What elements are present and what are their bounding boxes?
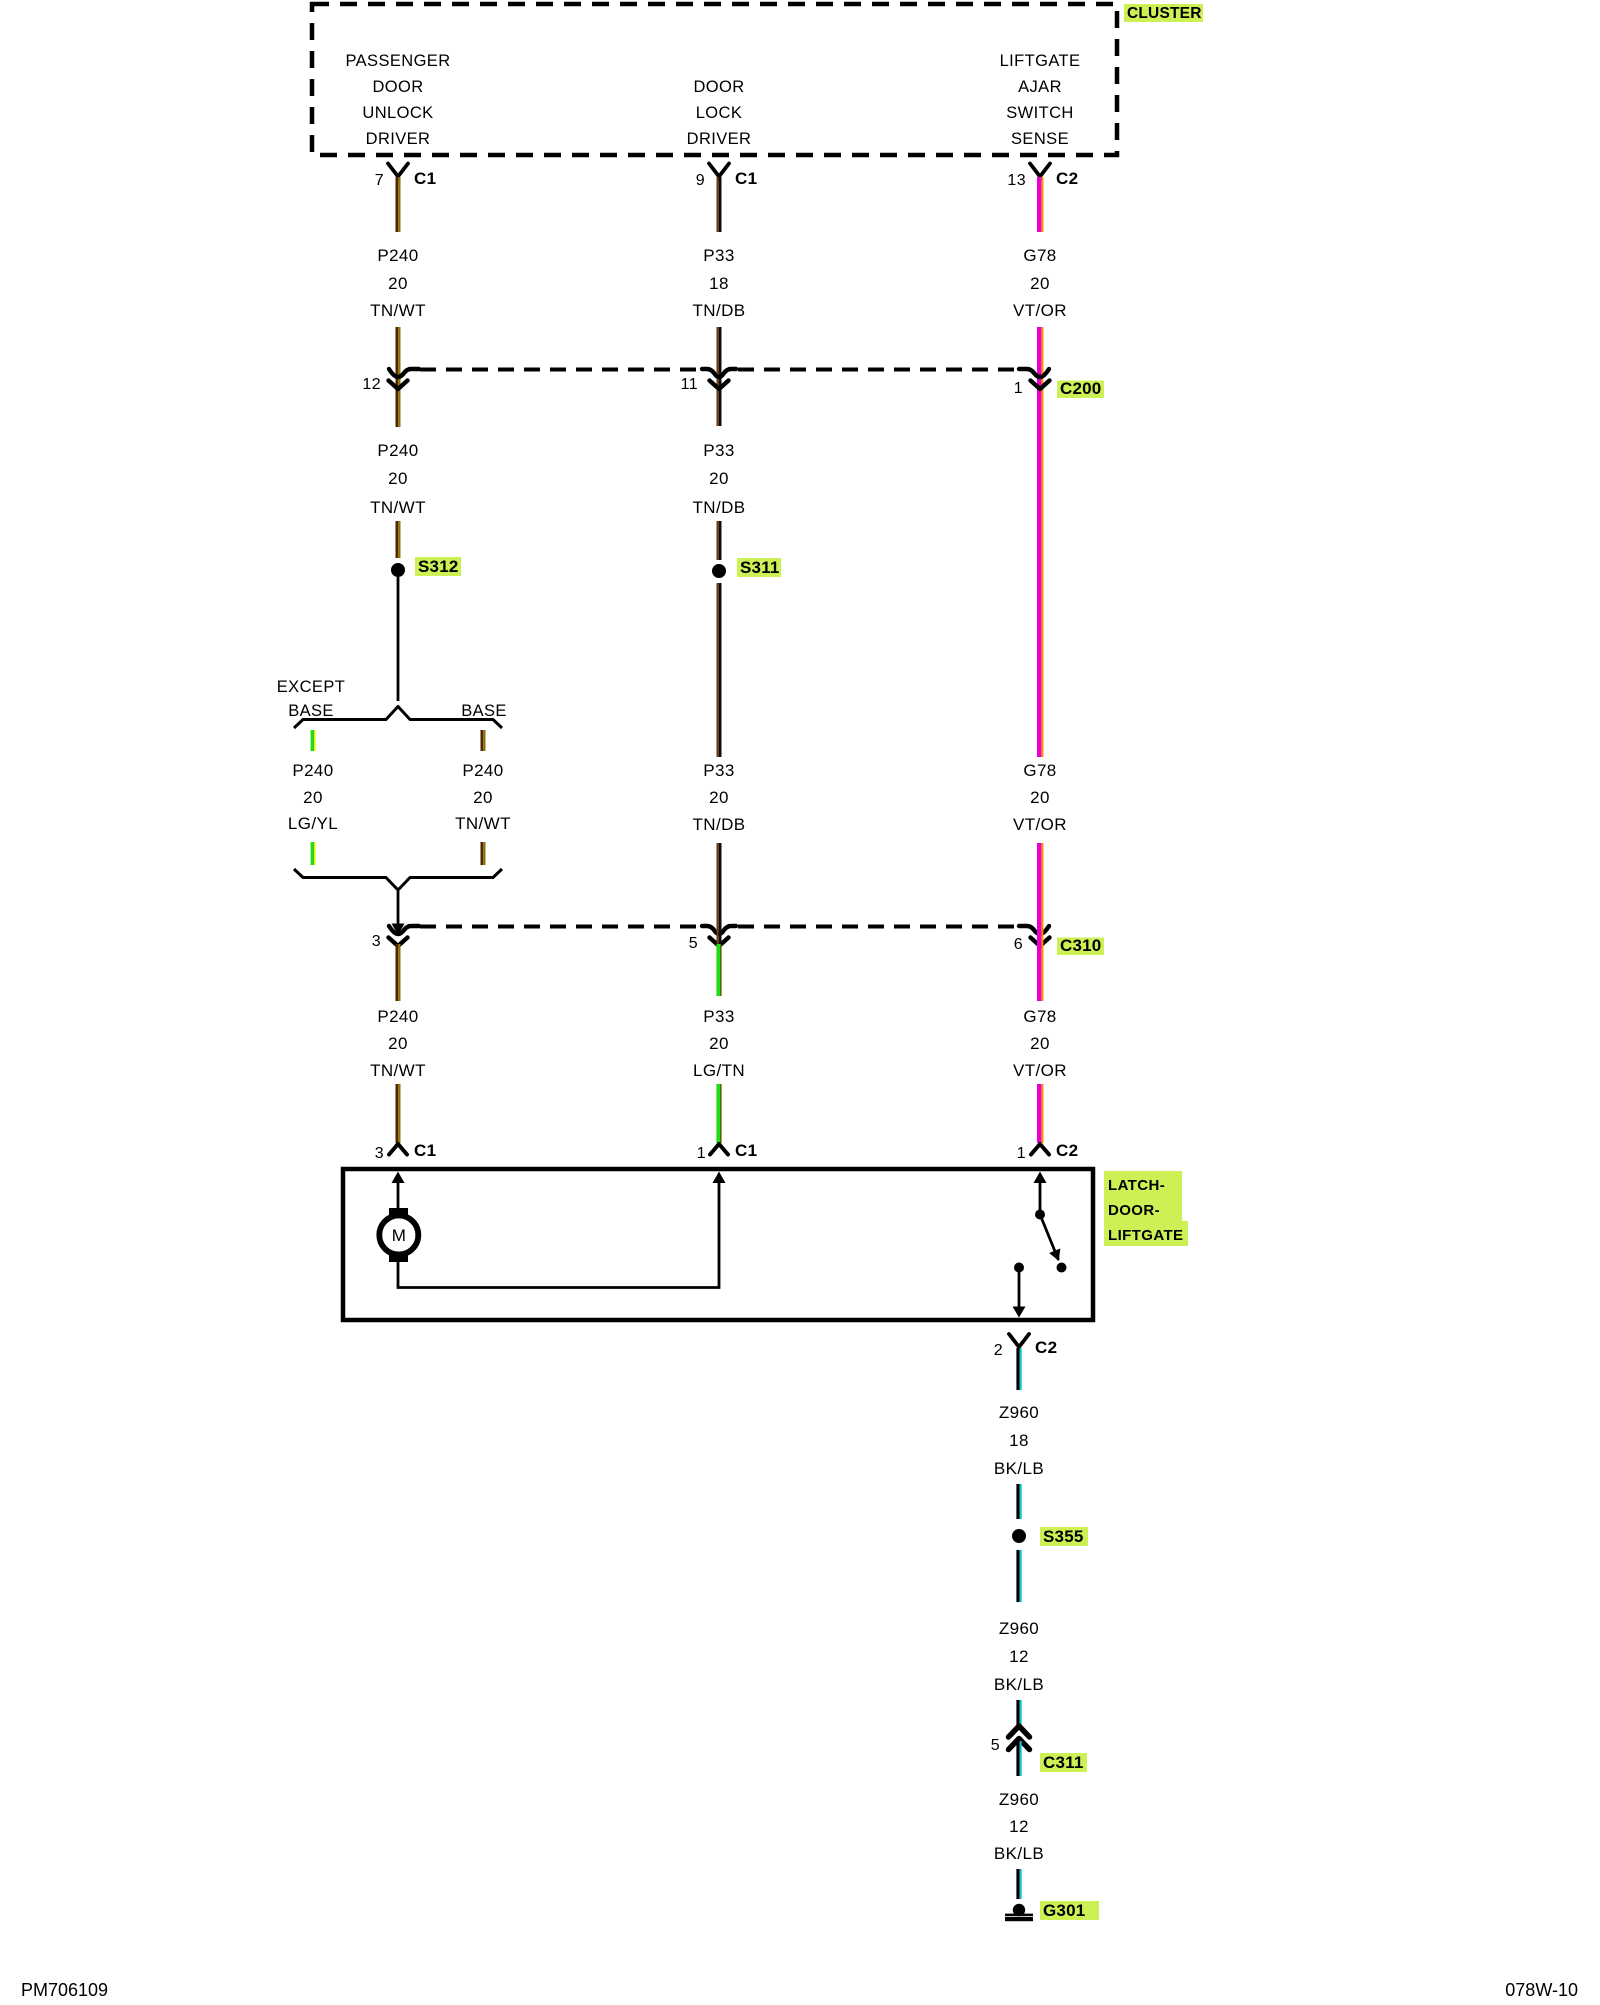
svg-text:C200: C200 — [1060, 379, 1101, 398]
svg-text:AJAR: AJAR — [1018, 78, 1062, 96]
branch label EXCEPT BASE — [277, 678, 345, 720]
svg-text:LOCK: LOCK — [696, 104, 743, 122]
wire LG/YL stub (lower) — [311, 842, 316, 865]
wire motor to pin 3 (arrow) — [392, 1172, 405, 1213]
svg-text:S355: S355 — [1043, 1527, 1084, 1546]
wire G78 20 VT/OR segment (pin 13 to label) — [1037, 177, 1043, 232]
wire label G78 20 VT/OR (second) — [1013, 761, 1067, 834]
svg-text:11: 11 — [681, 376, 698, 393]
svg-text:C1: C1 — [414, 1141, 437, 1160]
svg-text:BK/LB: BK/LB — [994, 1675, 1044, 1694]
svg-text:G78: G78 — [1023, 246, 1056, 265]
svg-text:12: 12 — [362, 376, 381, 393]
svg-text:TN/WT: TN/WT — [370, 498, 426, 517]
svg-text:20: 20 — [303, 788, 323, 807]
component box LATCH-DOOR-LIFTGATE — [343, 1169, 1093, 1320]
svg-text:P33: P33 — [703, 441, 734, 460]
connector pin 13 C2 (cluster, liftgate ajar switch sense) — [1030, 164, 1050, 181]
wire label P33 20 TN/DB — [693, 441, 746, 517]
svg-text:SWITCH: SWITCH — [1006, 104, 1073, 122]
svg-text:5: 5 — [689, 935, 698, 952]
svg-text:C1: C1 — [735, 1141, 758, 1160]
svg-text:7: 7 — [375, 172, 384, 189]
wire P240 20 LG/YL stub (upper) — [311, 730, 316, 751]
connector pin 7 C1 (cluster, passenger door unlock driver) — [388, 164, 408, 181]
svg-text:LG/YL: LG/YL — [288, 814, 338, 833]
svg-text:LIFTGATE: LIFTGATE — [1108, 1227, 1183, 1244]
svg-text:SENSE: SENSE — [1011, 130, 1069, 148]
wire TN/DB segment (S311 down to label) — [717, 583, 722, 757]
pin label LIFTGATE AJAR SWITCH SENSE — [1000, 52, 1081, 148]
svg-text:TN/DB: TN/DB — [693, 815, 746, 834]
switch liftgate ajar (common from pin 1 C2) — [1034, 1172, 1047, 1220]
wire Z960 18 BK/LB segment (pin 2 to label) — [1016, 1348, 1021, 1390]
svg-text:VT/OR: VT/OR — [1013, 301, 1067, 320]
connector label C311 — [1040, 1753, 1087, 1772]
dashed connector line C310 (left span) — [420, 925, 700, 929]
wire TN/WT stub (lower) — [481, 842, 486, 865]
wire P33 18 TN/DB segment (pin 9 to label) — [717, 177, 722, 232]
svg-text:2: 2 — [994, 1342, 1003, 1359]
svg-text:P240: P240 — [377, 1007, 418, 1026]
connector pin 9 C1 (cluster, door lock driver) — [709, 164, 729, 181]
svg-text:078W-10: 078W-10 — [1505, 1980, 1578, 2000]
svg-text:18: 18 — [709, 274, 729, 293]
connector C200 pin 11 symbol — [702, 369, 736, 389]
svg-text:C2: C2 — [1056, 169, 1079, 188]
wire TN/WT segment (C310 to label) — [396, 944, 401, 1001]
wire P240 20 TN/WT segment (pin 7 to label) — [396, 177, 401, 232]
svg-text:LG/TN: LG/TN — [693, 1061, 745, 1080]
svg-text:P240: P240 — [377, 246, 418, 265]
svg-text:3: 3 — [372, 933, 381, 950]
wire TN/DB segment (label through C200) — [717, 327, 722, 426]
svg-text:TN/WT: TN/WT — [370, 301, 426, 320]
brace branch merge bottom — [294, 869, 502, 890]
svg-text:TN/WT: TN/WT — [370, 1061, 426, 1080]
svg-text:C2: C2 — [1035, 1338, 1058, 1357]
splice S311 — [712, 558, 781, 578]
connector C200 pin 12 symbol — [389, 369, 420, 389]
wire label P240 20 TN/WT (third) — [370, 1007, 426, 1080]
svg-text:S312: S312 — [418, 557, 459, 576]
wire motor to pin 1 (via bottom) — [398, 1172, 726, 1288]
wire BK/LB segment (label to C311) — [1016, 1700, 1021, 1727]
svg-text:20: 20 — [709, 788, 729, 807]
svg-text:BASE: BASE — [461, 702, 507, 720]
svg-text:G78: G78 — [1023, 1007, 1056, 1026]
svg-text:LIFTGATE: LIFTGATE — [1000, 52, 1081, 70]
svg-text:DOOR-: DOOR- — [1108, 1202, 1160, 1219]
connector label C200 — [1057, 379, 1104, 398]
wire label P33 18 TN/DB — [693, 246, 746, 320]
wire label Z960 18 BK/LB — [994, 1403, 1044, 1478]
svg-text:1: 1 — [697, 1145, 706, 1162]
dashed connector line C310 (right span) — [738, 925, 1019, 929]
wire TN/DB segment (label to splice S311) — [717, 521, 722, 560]
wire LG/TN segment (label to latch pin 1) — [716, 1084, 721, 1143]
svg-text:Z960: Z960 — [999, 1403, 1039, 1422]
wire TN/DB segment (label to C310) — [717, 843, 722, 944]
svg-text:TN/DB: TN/DB — [693, 498, 746, 517]
wire label Z960 12 BK/LB (second) — [994, 1790, 1044, 1863]
wire label P33 20 LG/TN — [693, 1007, 745, 1080]
wire VT/OR segment (label to C200) — [1037, 327, 1043, 391]
svg-text:1: 1 — [1017, 1145, 1026, 1162]
wire VT/OR long segment (C200 to label) — [1037, 391, 1043, 757]
svg-text:VT/OR: VT/OR — [1013, 1061, 1067, 1080]
svg-text:20: 20 — [1030, 1034, 1050, 1053]
connector C310 pin 6 symbol — [1019, 926, 1050, 946]
switch contact to pin 2 (arrow down) — [1013, 1263, 1026, 1318]
svg-text:20: 20 — [1030, 788, 1050, 807]
svg-text:P240: P240 — [462, 761, 503, 780]
svg-text:20: 20 — [388, 274, 408, 293]
svg-text:EXCEPT: EXCEPT — [277, 678, 345, 696]
svg-text:VT/OR: VT/OR — [1013, 815, 1067, 834]
svg-text:P33: P33 — [703, 246, 734, 265]
svg-text:C1: C1 — [735, 169, 758, 188]
component box CLUSTER (dashed) — [312, 4, 1117, 155]
wire label P33 20 TN/DB (second) — [693, 761, 746, 834]
connector pin 1 C1 (latch) — [710, 1144, 728, 1155]
svg-text:BASE: BASE — [288, 702, 334, 720]
svg-text:DOOR: DOOR — [693, 78, 744, 96]
svg-text:TN/WT: TN/WT — [455, 814, 511, 833]
svg-text:6: 6 — [1014, 936, 1023, 953]
svg-text:G78: G78 — [1023, 761, 1056, 780]
pin label DOOR LOCK DRIVER — [687, 78, 752, 148]
wire VT/OR segment (label through C310) — [1037, 843, 1043, 1001]
wire TN/WT segment (label to splice S312) — [396, 521, 401, 558]
wire P240 20 TN/WT stub (upper) — [481, 730, 486, 751]
svg-text:C1: C1 — [414, 169, 437, 188]
svg-text:12: 12 — [1009, 1817, 1029, 1836]
wire label Z960 12 BK/LB — [994, 1619, 1044, 1694]
svg-text:20: 20 — [388, 469, 408, 488]
wire label G78 20 VT/OR (third) — [1013, 1007, 1067, 1080]
wire from brace merge to C310 — [397, 891, 400, 930]
svg-text:3: 3 — [375, 1145, 384, 1162]
svg-text:DRIVER: DRIVER — [366, 130, 431, 148]
pin label PASSENGER DOOR UNLOCK DRIVER — [345, 52, 450, 148]
switch blade with arrow — [1040, 1215, 1067, 1273]
svg-text:C310: C310 — [1060, 936, 1101, 955]
svg-text:P33: P33 — [703, 1007, 734, 1026]
connector C311 pin 5 symbol — [1009, 1726, 1030, 1750]
svg-text:20: 20 — [1030, 274, 1050, 293]
wire label P240 20 TN/WT (branch) — [455, 761, 511, 833]
svg-text:CLUSTER: CLUSTER — [1127, 5, 1202, 22]
svg-text:18: 18 — [1009, 1431, 1029, 1450]
wire BK/LB segment (S355 to label) — [1016, 1550, 1021, 1602]
svg-text:Z960: Z960 — [999, 1619, 1039, 1638]
svg-text:DOOR: DOOR — [372, 78, 423, 96]
dashed connector line C200 (left span) — [420, 368, 700, 372]
wire TN/WT segment (label through C200) — [396, 327, 401, 427]
wire label P240 20 TN/WT — [370, 246, 426, 320]
svg-text:20: 20 — [709, 1034, 729, 1053]
dashed connector line C200 (right span) — [738, 368, 1019, 372]
svg-text:5: 5 — [991, 1737, 1000, 1754]
svg-text:P240: P240 — [377, 441, 418, 460]
wire BK/LB segment (C311 arrow shaft) — [1016, 1741, 1021, 1776]
svg-text:13: 13 — [1007, 172, 1026, 189]
wire P33 20 LG/TN segment (C310 to label) — [716, 944, 721, 996]
label LATCH-DOOR-LIFTGATE — [1104, 1171, 1188, 1246]
svg-text:M: M — [392, 1226, 407, 1245]
svg-text:DRIVER: DRIVER — [687, 130, 752, 148]
svg-text:9: 9 — [696, 172, 705, 189]
svg-text:PM706109: PM706109 — [21, 1980, 108, 2000]
wire VT/OR segment (label to latch pin 1) — [1037, 1084, 1043, 1143]
motor M (door unlock) — [379, 1208, 418, 1262]
wire BK/LB segment (label to ground) — [1016, 1869, 1021, 1899]
wire label P240 20 TN/WT (second) — [370, 441, 426, 517]
svg-text:BK/LB: BK/LB — [994, 1459, 1044, 1478]
label CLUSTER — [1124, 4, 1203, 22]
svg-text:12: 12 — [1009, 1647, 1029, 1666]
wire from splice S312 to branch brace — [397, 577, 400, 701]
svg-text:BK/LB: BK/LB — [994, 1844, 1044, 1863]
connector label C310 — [1057, 936, 1104, 955]
svg-text:PASSENGER: PASSENGER — [345, 52, 450, 70]
svg-text:G301: G301 — [1043, 1901, 1085, 1920]
ground G301 — [1005, 1904, 1033, 1921]
connector pin 1 C2 (latch) — [1031, 1144, 1049, 1155]
splice S355 — [1012, 1527, 1088, 1546]
splice S312 — [391, 557, 461, 577]
connector C200 pin 1 symbol — [1019, 369, 1050, 389]
connector C310 pin 3 symbol — [389, 924, 420, 947]
svg-text:Z960: Z960 — [999, 1790, 1039, 1809]
svg-text:1: 1 — [1014, 380, 1023, 397]
svg-text:UNLOCK: UNLOCK — [362, 104, 433, 122]
svg-text:TN/DB: TN/DB — [693, 301, 746, 320]
svg-text:S311: S311 — [740, 558, 780, 577]
brace branch (EXCEPT BASE / BASE) top — [294, 707, 502, 729]
connector pin 3 C1 (latch) — [389, 1144, 407, 1155]
ground label G301 — [1040, 1901, 1099, 1920]
wire label P240 20 LG/YL — [288, 761, 338, 833]
wire TN/WT segment (label to latch pin 3) — [396, 1084, 401, 1143]
wire BK/LB segment (label to splice S355) — [1016, 1484, 1021, 1519]
svg-text:P240: P240 — [292, 761, 333, 780]
connector pin 2 C2 (latch, below box) — [1009, 1334, 1029, 1351]
connector C310 pin 5 symbol — [702, 926, 736, 946]
svg-text:20: 20 — [473, 788, 493, 807]
svg-text:20: 20 — [709, 469, 729, 488]
svg-text:C2: C2 — [1056, 1141, 1079, 1160]
svg-text:C311: C311 — [1043, 1753, 1084, 1772]
svg-text:20: 20 — [388, 1034, 408, 1053]
svg-text:P33: P33 — [703, 761, 734, 780]
svg-text:LATCH-: LATCH- — [1108, 1177, 1165, 1194]
wire label G78 20 VT/OR — [1013, 246, 1067, 320]
